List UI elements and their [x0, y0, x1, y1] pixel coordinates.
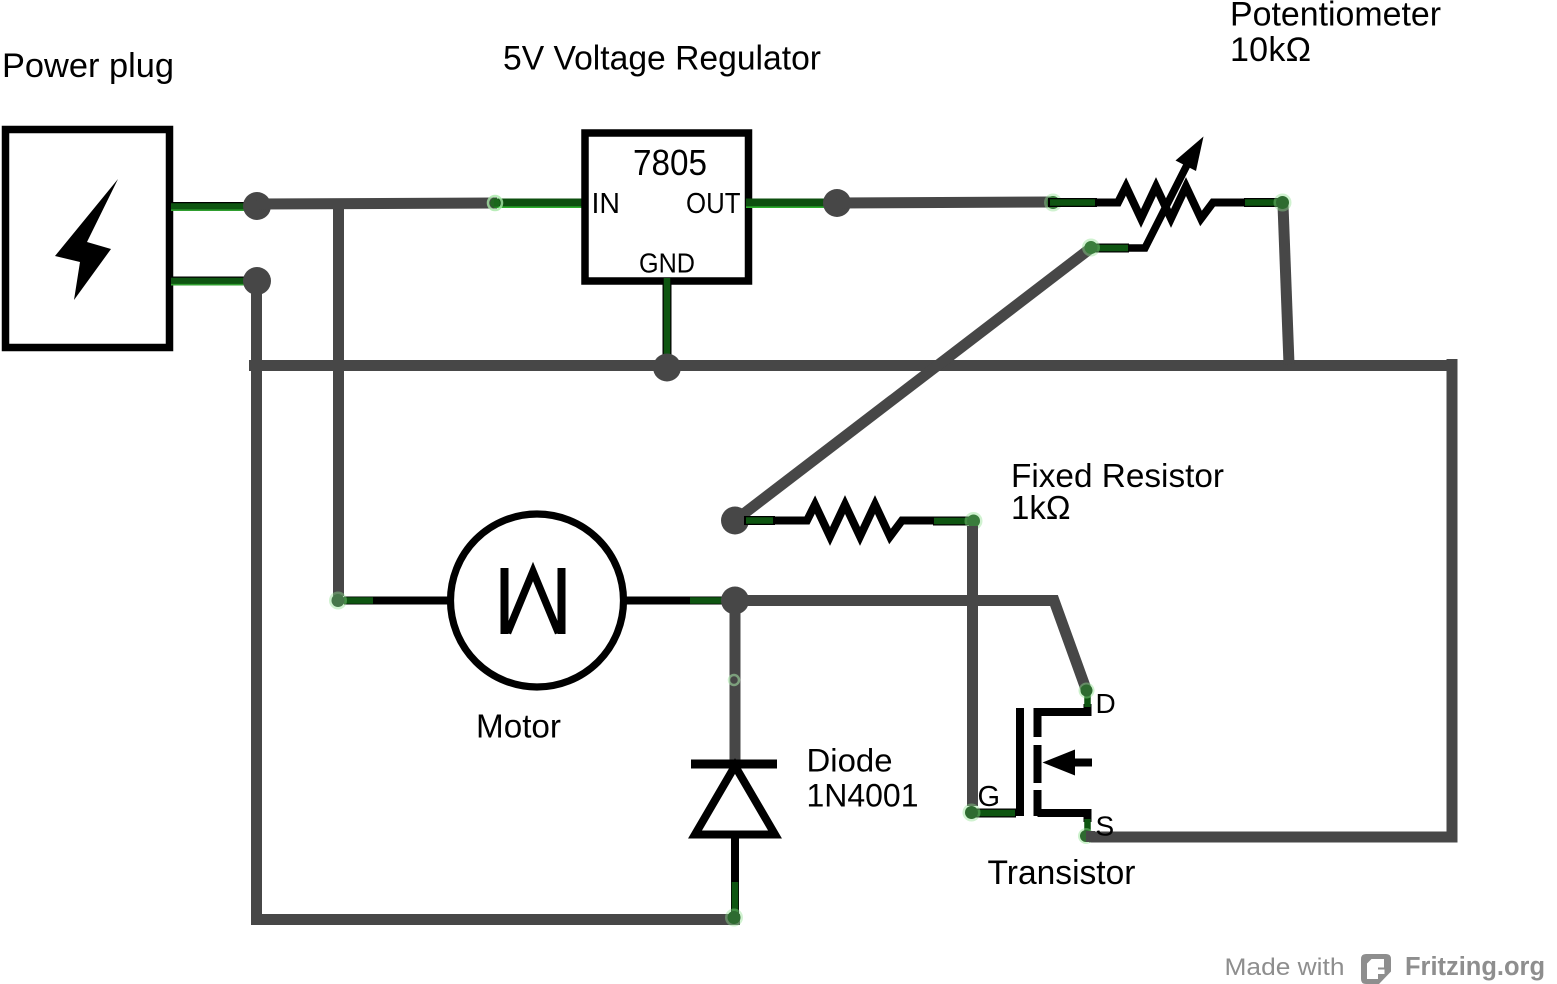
- wire motor to transistor drain: [735, 601, 1086, 690]
- svg-text:Fritzing.org: Fritzing.org: [1405, 953, 1545, 981]
- diode D1 top terminal faint dot: [729, 675, 739, 685]
- potentiometer R2 wiper dot: [1082, 239, 1100, 257]
- junction node E: [721, 507, 749, 535]
- junction node A: [243, 192, 271, 220]
- svg-text:Transistor: Transistor: [988, 854, 1136, 892]
- svg-text:G: G: [978, 781, 1001, 813]
- svg-text:GND: GND: [639, 248, 695, 279]
- svg-text:Power plug: Power plug: [2, 47, 174, 85]
- potentiometer R2 wiper green segment: [1091, 244, 1129, 253]
- svg-text:S: S: [1096, 811, 1115, 842]
- svg-text:OUT: OUT: [686, 188, 741, 220]
- transistor gate green wire: [972, 809, 1016, 818]
- wire left vertical node B down: [251, 281, 262, 920]
- junction node B: [243, 267, 271, 295]
- wire source to ground bus right: [1086, 831, 1095, 842]
- fixed resistor R1: [744, 505, 972, 537]
- wire branch node A down to motor: [333, 204, 344, 596]
- wire plug pin 2: [169, 281, 247, 285]
- transistor source green stub and dot: [1078, 819, 1094, 844]
- motor M1: [344, 514, 732, 687]
- svg-text:Potentiometer: Potentiometer: [1230, 0, 1441, 34]
- wire bottom: left corner to diode anode: [251, 914, 740, 925]
- fixed resistor R1 right terminal dot: [965, 512, 983, 530]
- svg-text:10kΩ: 10kΩ: [1230, 31, 1311, 69]
- wire resistor to transistor gate: [967, 526, 978, 806]
- svg-text:7805: 7805: [633, 142, 707, 183]
- wire node A to regulator IN: [257, 203, 497, 204]
- svg-text:Motor: Motor: [476, 708, 561, 745]
- wire green segment into IN pin: [488, 196, 585, 210]
- wire motor node down to diode cathode: [730, 601, 741, 764]
- junction node D (ground bus): [653, 354, 681, 382]
- transistor drain green stub and dot: [1079, 683, 1095, 708]
- diode D1: [691, 764, 777, 914]
- junction node C (5V out): [823, 189, 851, 217]
- wire node C to potentiometer: [837, 202, 1053, 203]
- voltage regulator U1 7805: [585, 133, 749, 281]
- junction node F (motor right): [721, 587, 749, 615]
- svg-text:IN: IN: [592, 188, 621, 220]
- transistor gate terminal dot: [963, 804, 981, 822]
- potentiometer R2 terminal 2 dot: [1274, 194, 1292, 212]
- svg-text:D: D: [1096, 688, 1116, 719]
- svg-text:1N4001: 1N4001: [807, 778, 919, 814]
- power plug J1: [6, 130, 170, 348]
- wire GND pin green segment: [663, 278, 672, 360]
- svg-text:Made with: Made with: [1225, 954, 1345, 981]
- potentiometer R2 wiper arrow: [1128, 137, 1204, 249]
- potentiometer R2 terminal 1 dot: [1044, 194, 1062, 212]
- wire pot wiper diagonal to node E: [735, 248, 1091, 521]
- svg-text:Diode: Diode: [807, 743, 893, 779]
- wire ground bus: left end, across, right side down to source: [249, 366, 1452, 838]
- wire OUT pin green segment: [746, 203, 832, 207]
- svg-text:1kΩ: 1kΩ: [1011, 489, 1071, 526]
- motor left terminal green segment: [329, 592, 373, 610]
- wire plug pin 1: [169, 207, 247, 211]
- transistor Q1 (N-MOSFET): [1020, 704, 1092, 822]
- wire pot terminal 2 down to ground bus: [1283, 205, 1289, 364]
- footer Fritzing logo: [1361, 954, 1391, 984]
- diode D1 bottom terminal dot: [725, 909, 743, 927]
- svg-text:5V Voltage Regulator: 5V Voltage Regulator: [503, 40, 821, 78]
- motor right terminal green segment: [690, 597, 728, 604]
- potentiometer R2 body: [1048, 187, 1281, 219]
